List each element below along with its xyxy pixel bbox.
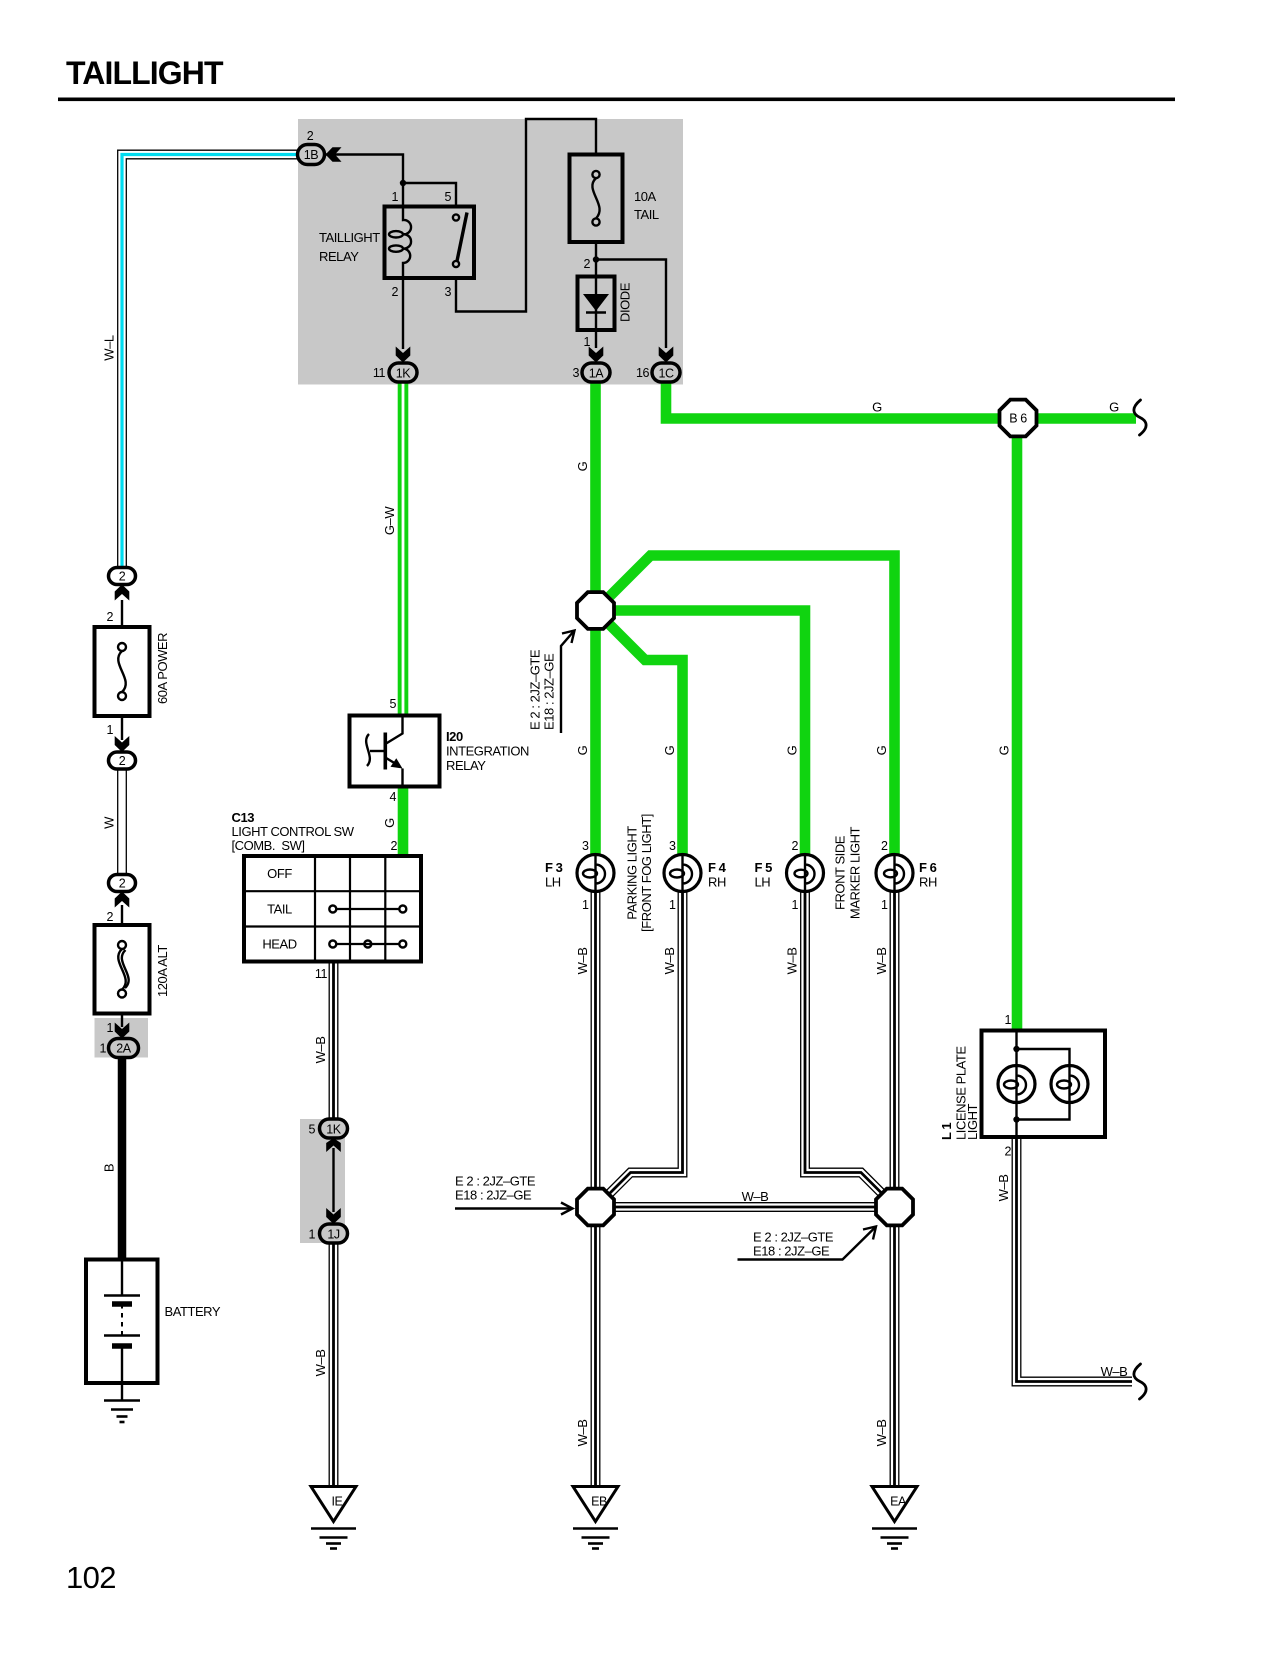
connector arrow down into 1J bbox=[326, 1208, 341, 1224]
svg-text:INTEGRATION: INTEGRATION bbox=[446, 744, 529, 759]
L1 bulb 1 bbox=[998, 1066, 1035, 1103]
svg-text:W: W bbox=[102, 816, 117, 829]
relay switch contact pin 5 bbox=[453, 214, 459, 220]
svg-text:W–B: W–B bbox=[662, 948, 677, 975]
svg-text:10A: 10A bbox=[634, 189, 657, 204]
diode symbol bbox=[583, 294, 609, 311]
svg-text:1C: 1C bbox=[658, 367, 674, 381]
svg-text:G: G bbox=[662, 745, 677, 755]
fusible link 120A element bbox=[118, 941, 126, 949]
svg-text:1: 1 bbox=[582, 898, 589, 912]
svg-text:2: 2 bbox=[391, 285, 398, 299]
battery box bbox=[86, 1260, 158, 1384]
svg-text:G: G bbox=[575, 461, 590, 471]
connector oval 1J bbox=[320, 1224, 348, 1243]
svg-text:TAILLIGHT: TAILLIGHT bbox=[66, 55, 224, 91]
svg-text:TAILLIGHT: TAILLIGHT bbox=[319, 230, 380, 245]
svg-text:DIODE: DIODE bbox=[618, 282, 633, 322]
svg-text:RH: RH bbox=[919, 875, 937, 890]
wire G splice branch to front side marker F6 bbox=[596, 556, 895, 855]
fuse 10A TAIL box bbox=[570, 155, 623, 243]
svg-text:W–B: W–B bbox=[575, 1420, 590, 1447]
wire G from integration relay to light control switch pin 2 bbox=[398, 787, 409, 857]
battery symbol bbox=[121, 1260, 123, 1296]
relay coil bbox=[403, 207, 411, 279]
svg-text:E18 : 2JZ–GE: E18 : 2JZ–GE bbox=[542, 653, 557, 730]
node junction at relay pin 1 branch bbox=[400, 180, 406, 186]
svg-text:3: 3 bbox=[582, 839, 589, 853]
junction octagon B6 bbox=[1000, 400, 1037, 437]
light control switch C13 table bbox=[244, 856, 421, 962]
wire relay pin 3 to fuse 10A TAIL bbox=[456, 119, 596, 312]
connector oval 2 middle bbox=[109, 752, 136, 769]
svg-text:TAIL: TAIL bbox=[267, 901, 292, 916]
svg-text:E 2 : 2JZ–GTE: E 2 : 2JZ–GTE bbox=[528, 649, 543, 730]
wire W-B splice to ground EA bbox=[890, 1227, 900, 1486]
connector oval 2 upper bbox=[109, 568, 136, 585]
svg-text:102: 102 bbox=[66, 1560, 116, 1595]
svg-text:1A: 1A bbox=[589, 367, 605, 381]
svg-text:1K: 1K bbox=[326, 1123, 342, 1137]
svg-text:5: 5 bbox=[444, 190, 451, 204]
svg-text:2: 2 bbox=[583, 257, 590, 271]
svg-text:1: 1 bbox=[881, 898, 888, 912]
parking light F4 bulb bbox=[664, 855, 701, 892]
parking light F3 bulb bbox=[577, 855, 614, 892]
svg-text:MARKER LIGHT: MARKER LIGHT bbox=[848, 826, 863, 919]
switch TAIL row contacts bbox=[337, 908, 400, 910]
leader arrow to right W-B splice bbox=[738, 1228, 876, 1260]
svg-text:2: 2 bbox=[1004, 1145, 1011, 1159]
splice octagon W-B right bbox=[876, 1189, 913, 1226]
title rule bbox=[58, 98, 1175, 102]
svg-text:11: 11 bbox=[373, 366, 386, 380]
wire relay pin 2 to connector 1K bbox=[402, 278, 404, 349]
svg-text:1K: 1K bbox=[396, 367, 412, 381]
svg-text:1: 1 bbox=[791, 898, 798, 912]
svg-text:W–B: W–B bbox=[313, 1037, 328, 1064]
svg-text:E18 : 2JZ–GE: E18 : 2JZ–GE bbox=[753, 1244, 830, 1259]
relay switch blade bbox=[457, 213, 467, 262]
connector arrow up into oval 2 upper bbox=[115, 585, 130, 601]
svg-text:F 5: F 5 bbox=[755, 860, 773, 875]
svg-text:EB: EB bbox=[591, 1495, 607, 1509]
wire W-B from switch pin 11 to connector 1K bbox=[329, 962, 339, 1120]
transistor symbol in I20 bbox=[366, 734, 370, 766]
connector oval 1A bbox=[582, 363, 610, 382]
wire fuse 10A to diode bbox=[595, 242, 597, 348]
wire W-B from F3 to splice bbox=[591, 873, 601, 1188]
connector arrow into 1K bbox=[396, 347, 411, 363]
splice octagon green E2/E18 bbox=[577, 592, 614, 629]
svg-text:G: G bbox=[575, 745, 590, 755]
svg-text:RH: RH bbox=[708, 875, 726, 890]
wire 1B to relay pin 1 bbox=[325, 155, 403, 207]
svg-text:2: 2 bbox=[119, 877, 126, 891]
connector oval 2 lower bbox=[109, 875, 136, 892]
svg-text:G: G bbox=[997, 745, 1012, 755]
svg-text:G: G bbox=[872, 400, 882, 415]
svg-text:IE: IE bbox=[332, 1495, 343, 1509]
fuse 120A ALT box bbox=[95, 925, 150, 1014]
relay block gray background bbox=[298, 119, 683, 385]
break symbol bottom right W-B bbox=[1134, 1364, 1146, 1399]
svg-text:F 3: F 3 bbox=[545, 860, 563, 875]
svg-text:OFF: OFF bbox=[267, 866, 292, 881]
svg-text:B 6: B 6 bbox=[1009, 412, 1027, 426]
svg-text:2: 2 bbox=[119, 754, 126, 768]
connector oval 1B bbox=[298, 145, 325, 165]
wire B battery feed bbox=[118, 1058, 127, 1260]
wire black 60A POWER pin2 link bbox=[121, 600, 123, 627]
svg-text:F 6: F 6 bbox=[919, 860, 937, 875]
wire black 120A ALT pin1 to connector 2A bbox=[121, 1014, 123, 1028]
svg-text:W–L: W–L bbox=[102, 335, 117, 361]
svg-text:11: 11 bbox=[315, 967, 328, 981]
fuse 60A element bbox=[118, 643, 126, 651]
svg-text:5: 5 bbox=[308, 1123, 315, 1137]
wire G from connector 1A to parking light F3 bbox=[590, 373, 601, 855]
connector arrow down to 2A bbox=[115, 1023, 130, 1039]
svg-text:60A POWER: 60A POWER bbox=[155, 633, 170, 704]
svg-text:G: G bbox=[874, 745, 889, 755]
break symbol right of B6 bbox=[1134, 400, 1146, 435]
connector oval 1K lower bbox=[320, 1119, 348, 1138]
battery ground symbol bbox=[104, 1399, 140, 1402]
svg-text:4: 4 bbox=[389, 790, 396, 804]
svg-text:1: 1 bbox=[1004, 1013, 1011, 1027]
connector arrow up into oval 2 lower bbox=[115, 892, 130, 908]
L1 internal wiring bbox=[1015, 1031, 1017, 1138]
svg-text:2: 2 bbox=[106, 610, 113, 624]
svg-text:1: 1 bbox=[106, 1021, 113, 1035]
L1 bulb 2 bbox=[1051, 1066, 1088, 1103]
svg-text:1: 1 bbox=[99, 1042, 106, 1056]
svg-text:E18 : 2JZ–GE: E18 : 2JZ–GE bbox=[455, 1188, 532, 1203]
svg-text:FRONT SIDE: FRONT SIDE bbox=[833, 835, 848, 910]
ground EB triangle bbox=[573, 1487, 618, 1522]
ground EA triangle bbox=[872, 1487, 917, 1522]
wire G from junction B6 to license plate light L1 bbox=[1012, 419, 1023, 1031]
svg-text:1: 1 bbox=[583, 335, 590, 349]
svg-text:W–B: W–B bbox=[575, 948, 590, 975]
wire W-B from connector 1J to ground IE bbox=[329, 1243, 339, 1486]
svg-text:16: 16 bbox=[636, 366, 650, 380]
svg-text:5: 5 bbox=[389, 697, 396, 711]
svg-text:RELAY: RELAY bbox=[446, 758, 486, 773]
svg-text:W–B: W–B bbox=[874, 1420, 889, 1447]
integration relay I20 box bbox=[350, 716, 440, 787]
wire W-B splice to ground EB bbox=[591, 1226, 601, 1486]
wire W-B from F4 to splice bbox=[601, 873, 683, 1203]
leader arrow to green splice bbox=[561, 632, 574, 734]
wire W-B from F6 to splice bbox=[890, 873, 900, 1188]
wire connector 1K to 1J link bbox=[332, 1148, 334, 1212]
svg-text:1: 1 bbox=[106, 723, 113, 737]
fuse 10A element bbox=[592, 171, 599, 178]
connector arrow into 1C bbox=[659, 347, 674, 363]
svg-text:1J: 1J bbox=[327, 1228, 340, 1242]
wire G splice branch to parking light F5 bbox=[596, 611, 806, 855]
svg-text:LH: LH bbox=[755, 875, 771, 890]
wire G-W from connector 1K to integration relay bbox=[398, 373, 409, 716]
license plate light L1 box bbox=[982, 1031, 1106, 1138]
connector oval 1K bbox=[389, 363, 417, 382]
svg-text:120A ALT: 120A ALT bbox=[155, 945, 170, 997]
wire branch to relay pin 5 bbox=[403, 183, 456, 207]
wire W-L from connector 1B to fuse 60A POWER bbox=[122, 155, 298, 568]
wire W-B from F5 to splice bbox=[805, 873, 891, 1202]
svg-text:W–B: W–B bbox=[785, 948, 800, 975]
svg-text:BATTERY: BATTERY bbox=[165, 1304, 221, 1319]
svg-text:2: 2 bbox=[390, 839, 397, 853]
connector arrow into 1B bbox=[326, 147, 342, 162]
wire branch to connector 1C bbox=[596, 260, 666, 349]
taillight relay box bbox=[385, 207, 475, 279]
svg-text:B: B bbox=[102, 1164, 117, 1172]
svg-text:W–B: W–B bbox=[1101, 1364, 1128, 1379]
svg-text:L 1: L 1 bbox=[939, 1123, 954, 1140]
wire black into 120A ALT bbox=[121, 905, 123, 925]
svg-text:2: 2 bbox=[791, 839, 798, 853]
svg-text:W–B: W–B bbox=[874, 948, 889, 975]
svg-text:TAIL: TAIL bbox=[634, 207, 659, 222]
svg-text:RELAY: RELAY bbox=[319, 249, 359, 264]
connector arrow up into 1K lower bbox=[326, 1138, 341, 1152]
svg-text:LIGHT CONTROL SW: LIGHT CONTROL SW bbox=[232, 824, 355, 839]
svg-text:C13: C13 bbox=[232, 810, 255, 825]
wire G splice branch to parking light F4 bbox=[596, 611, 683, 855]
svg-text:1B: 1B bbox=[304, 148, 319, 162]
svg-text:G: G bbox=[1109, 400, 1119, 415]
svg-text:2A: 2A bbox=[116, 1042, 132, 1056]
svg-text:F 4: F 4 bbox=[708, 860, 727, 875]
parking light F5 bulb bbox=[787, 855, 824, 892]
svg-text:EA: EA bbox=[890, 1495, 907, 1509]
svg-text:3: 3 bbox=[444, 285, 451, 299]
svg-text:HEAD: HEAD bbox=[262, 937, 296, 952]
svg-text:1: 1 bbox=[308, 1228, 315, 1242]
fuse 60A POWER box bbox=[95, 627, 150, 716]
svg-text:2: 2 bbox=[106, 910, 113, 924]
svg-text:1: 1 bbox=[669, 898, 676, 912]
relay switch contact pin 3 bbox=[453, 261, 459, 267]
svg-text:G: G bbox=[785, 745, 800, 755]
svg-text:PARKING LIGHT: PARKING LIGHT bbox=[625, 826, 640, 920]
wire W between fuse connectors bbox=[117, 769, 127, 875]
svg-text:W–B: W–B bbox=[996, 1175, 1011, 1202]
wire W-B from license plate light L1 bbox=[1017, 1137, 1133, 1382]
node junction below fuse 10A bbox=[593, 256, 599, 262]
svg-text:G–W: G–W bbox=[382, 506, 397, 535]
svg-text:1: 1 bbox=[391, 190, 398, 204]
wire W-B between splices bbox=[615, 1202, 875, 1212]
wire G from connector 1C to junction B6 bbox=[666, 373, 1136, 419]
svg-text:[COMB. SW]: [COMB. SW] bbox=[232, 838, 305, 853]
gray background behind connector 2A bbox=[95, 1018, 149, 1058]
svg-text:3: 3 bbox=[669, 839, 676, 853]
svg-text:E 2 : 2JZ–GTE: E 2 : 2JZ–GTE bbox=[753, 1230, 834, 1245]
svg-text:2: 2 bbox=[119, 570, 126, 584]
svg-text:[FRONT FOG LIGHT]: [FRONT FOG LIGHT] bbox=[639, 814, 654, 932]
connector oval 2A bbox=[109, 1039, 139, 1058]
ground IE triangle bbox=[311, 1487, 356, 1522]
front side marker F6 bulb bbox=[876, 855, 913, 892]
svg-text:I20: I20 bbox=[446, 729, 463, 744]
gray background behind connectors 1K/1J bbox=[300, 1119, 345, 1243]
svg-text:2: 2 bbox=[881, 839, 888, 853]
switch HEAD row contacts bbox=[337, 943, 400, 945]
svg-text:LIGHT: LIGHT bbox=[965, 1103, 980, 1140]
svg-text:LH: LH bbox=[545, 875, 561, 890]
diode box bbox=[578, 277, 615, 331]
svg-text:W–B: W–B bbox=[742, 1189, 769, 1204]
svg-text:3: 3 bbox=[572, 366, 579, 380]
svg-text:E 2 : 2JZ–GTE: E 2 : 2JZ–GTE bbox=[455, 1174, 536, 1189]
connector arrow down to oval 2 middle bbox=[115, 736, 130, 752]
splice octagon W-B left bbox=[577, 1189, 614, 1226]
connector oval 1C bbox=[652, 363, 680, 382]
wire black 60A POWER pin1 to next connector bbox=[121, 716, 123, 740]
svg-text:W–B: W–B bbox=[313, 1350, 328, 1377]
leader arrow to left W-B splice bbox=[455, 1207, 571, 1209]
connector arrow into 1A bbox=[589, 347, 604, 363]
svg-text:G: G bbox=[382, 818, 397, 828]
svg-text:2: 2 bbox=[307, 129, 314, 143]
